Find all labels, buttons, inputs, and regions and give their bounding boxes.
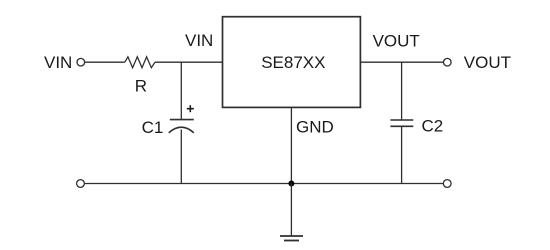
svg-text:C1: C1 <box>142 118 164 137</box>
wire C2 bottom plate to ground rail <box>401 126 403 183</box>
node VOUT terminal (open circle, top-right) <box>444 58 452 66</box>
svg-text:VIN: VIN <box>44 53 72 72</box>
capacitor C1 curved negative plate <box>169 127 194 133</box>
resistor R <box>125 57 155 68</box>
capacitor C1 plus sign <box>187 105 194 112</box>
node ground rail left terminal (open circle) <box>77 180 85 188</box>
op-amp U1 regulator body SE87XX <box>223 17 361 108</box>
wire C2 branch (node to C2 top plate) <box>401 62 403 120</box>
capacitor C2 bottom plate <box>390 125 413 127</box>
svg-text:VOUT: VOUT <box>373 31 420 50</box>
node ground rail right terminal (open circle) <box>443 180 451 188</box>
wire VIN terminal to resistor <box>85 61 125 63</box>
capacitor C1 (polarized): straight positive plate <box>170 119 194 121</box>
node VIN terminal (open circle, top-left) <box>77 58 85 66</box>
capacitor C2 top plate <box>390 119 413 121</box>
svg-text:VOUT: VOUT <box>464 53 511 72</box>
svg-text:VIN: VIN <box>185 31 213 50</box>
svg-text:GND: GND <box>296 117 334 136</box>
svg-text:SE87XX: SE87XX <box>261 53 325 72</box>
svg-text:R: R <box>135 76 147 95</box>
wire C1 branch (node to C1 top plate) <box>180 62 182 119</box>
wire C1 bottom plate to ground rail <box>180 130 182 184</box>
wire junction to ground symbol <box>290 184 292 237</box>
node junction dot on ground rail <box>288 181 294 187</box>
wire GND pin of regulator to rail <box>290 107 292 183</box>
wire regulator VOUT pin to output terminal <box>360 61 443 63</box>
wire ground rail (bottom) <box>85 183 444 185</box>
ground <box>280 236 303 241</box>
svg-text:C2: C2 <box>422 117 444 136</box>
wire resistor to regulator VIN pin <box>155 61 223 63</box>
